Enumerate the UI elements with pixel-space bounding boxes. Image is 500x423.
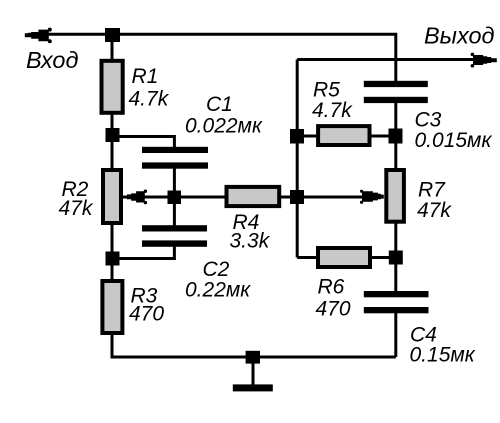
svg-text:3.3k: 3.3k [230, 230, 271, 253]
svg-text:470: 470 [316, 298, 351, 321]
svg-text:R6: R6 [318, 276, 345, 299]
svg-text:4.7k: 4.7k [312, 99, 353, 122]
svg-text:4.7k: 4.7k [129, 88, 170, 111]
svg-text:0.022мк: 0.022мк [185, 115, 263, 138]
svg-text:R1: R1 [132, 65, 159, 88]
svg-text:0.15мк: 0.15мк [410, 344, 476, 367]
svg-text:Выход: Выход [424, 23, 495, 49]
svg-text:Вход: Вход [26, 47, 78, 73]
svg-text:0.22мк: 0.22мк [185, 279, 251, 302]
svg-text:0.015мк: 0.015мк [415, 129, 493, 152]
svg-text:470: 470 [129, 303, 164, 326]
svg-text:47k: 47k [417, 199, 452, 222]
svg-text:C1: C1 [206, 93, 233, 116]
svg-text:47k: 47k [59, 197, 94, 220]
